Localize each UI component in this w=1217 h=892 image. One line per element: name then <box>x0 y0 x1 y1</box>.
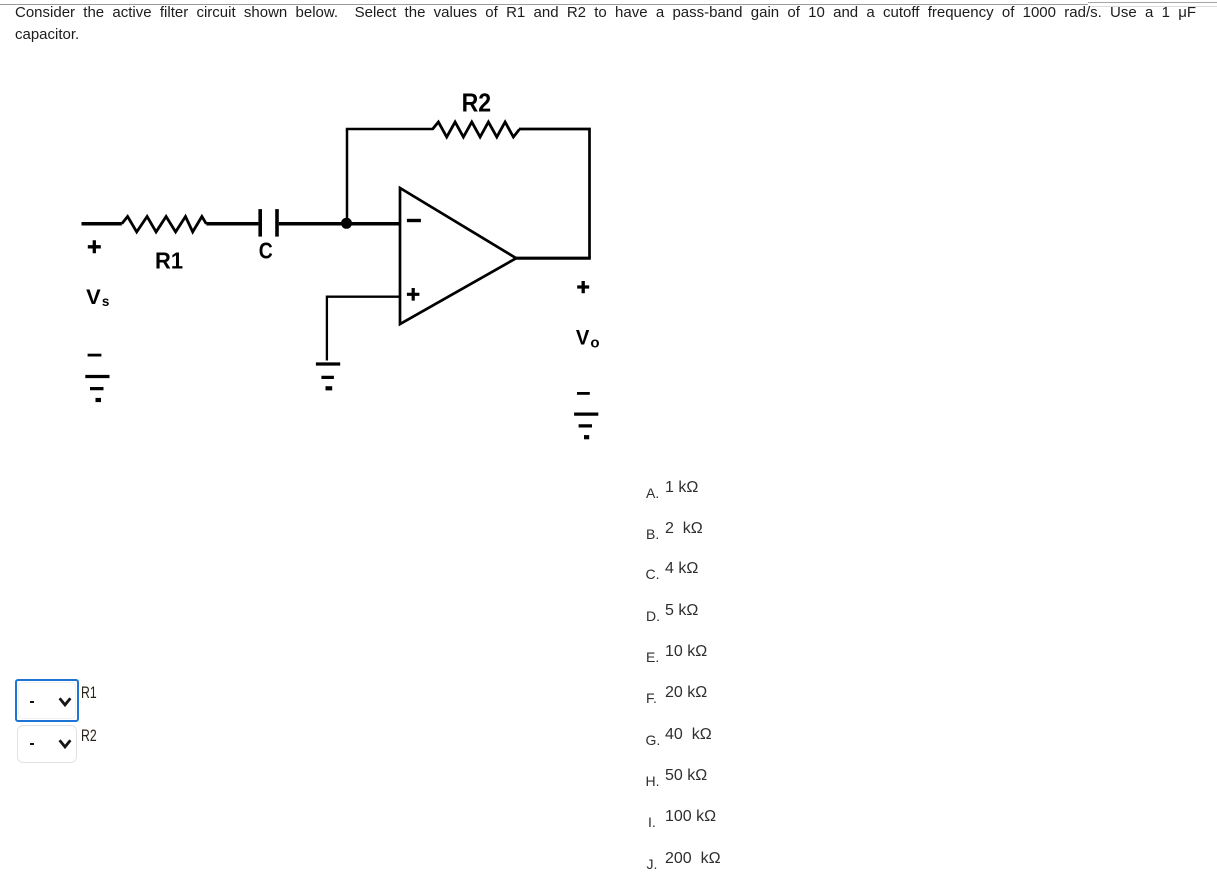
resistor R2 <box>432 122 519 137</box>
select R2 box <box>17 725 77 764</box>
wire feedback right and down to output <box>519 129 590 258</box>
wire capacitor to op-amp <box>279 222 400 226</box>
op-amp inverting input minus sign <box>407 219 421 222</box>
label R1 (select) <box>81 685 97 701</box>
select R1 dash <box>30 701 34 703</box>
select R2 dash <box>30 743 34 745</box>
wire feedback vertical from node <box>346 129 349 222</box>
capacitor C plate 2 <box>275 209 279 237</box>
op-amp non-inverting input plus sign <box>407 288 420 301</box>
wire feedback top left <box>346 128 433 131</box>
ground (Vs source) <box>85 377 109 389</box>
select R2 chevron <box>58 738 72 749</box>
wire output <box>516 257 591 260</box>
svg-text:C: C <box>259 238 273 264</box>
label R2 (select) <box>81 728 97 744</box>
svg-text:s: s <box>102 294 110 309</box>
ground (Vo output) <box>574 414 598 426</box>
circuit schematic <box>0 0 1217 460</box>
resistor R1 <box>122 217 207 232</box>
svg-text:V: V <box>86 286 101 309</box>
ground (op-amp + input) <box>316 364 340 377</box>
wire non-inverting input to ground <box>327 297 400 361</box>
svg-text:o: o <box>590 334 599 351</box>
svg-text:R2: R2 <box>462 88 492 118</box>
top border line left segment <box>0 4 1088 5</box>
wire input lead <box>82 222 122 226</box>
plus sign (Vs source) <box>88 240 101 253</box>
minus sign (Vs source) <box>88 354 102 357</box>
select R1 inner border <box>18 682 75 719</box>
svg-text:V: V <box>576 327 590 350</box>
top border faint right second line <box>1088 6 1217 7</box>
top border line right segment <box>1088 2 1217 3</box>
capacitor C plate 1 <box>258 209 262 237</box>
answer options <box>0 0 1217 1</box>
plus sign (Vo output) <box>577 281 589 293</box>
svg-text:R1: R1 <box>155 248 183 274</box>
node junction dot <box>341 218 352 229</box>
op-amp U1 triangle <box>400 188 516 324</box>
wire R1 to capacitor <box>206 222 258 226</box>
select R1 chevron <box>58 696 72 707</box>
minus sign (Vo output) <box>577 392 590 395</box>
question text <box>15 2 1210 45</box>
select R1 focus ring <box>15 679 79 722</box>
